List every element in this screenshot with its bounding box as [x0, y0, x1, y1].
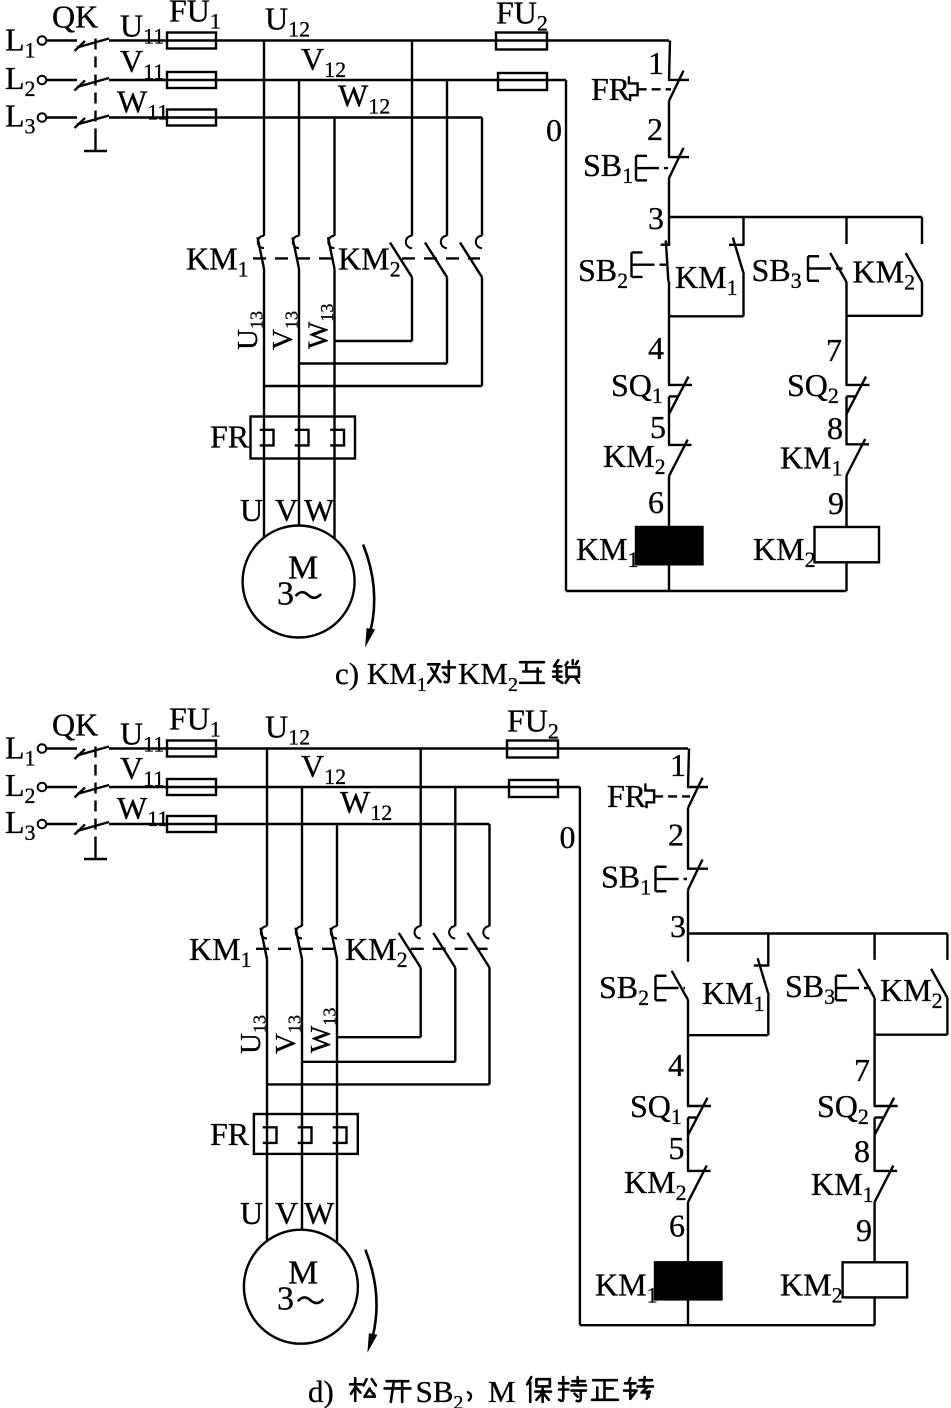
thermal relay FR actuator (c)	[629, 76, 638, 101]
limit switch SQ2 NC contact (d)	[874, 1105, 898, 1107]
wire node3 to SB2 (c)	[668, 217, 670, 245]
wire KM2 coil to bottom (d)	[873, 1297, 875, 1325]
fuse FU2 element 2 (c)	[498, 73, 547, 90]
wire SB2 to node4 (c)	[668, 281, 670, 385]
contactor KM2 main contact pole 2 (d)	[449, 926, 455, 938]
wire L1 to QK (c)	[46, 39, 77, 41]
wire V-phase KM1 to motor (d)	[301, 959, 303, 1230]
svg-text:FR: FR	[591, 71, 631, 107]
wire KM1 coil to bottom (c)	[668, 564, 670, 591]
wire KM2 pole1 to W13 (c)	[411, 277, 413, 341]
limit switch SQ2 NC contact (c)	[846, 384, 870, 386]
motor M circle (c)	[243, 526, 355, 638]
wire V-phase drop to KM2 (c)	[446, 80, 448, 236]
switch QK pole 1 (c)	[77, 39, 109, 48]
wire bottom return (c)	[566, 590, 847, 592]
wire node3 to SB3 (c)	[845, 217, 847, 244]
wire KM2 pole3 to U13 (c)	[481, 277, 483, 386]
wire W-phase KM1 to motor (d)	[336, 959, 338, 1242]
wire L2 to QK (d)	[46, 786, 77, 788]
contact KM2 NC interlock (d)	[687, 1170, 711, 1172]
start button SB3 operator (c)	[807, 256, 809, 281]
start button SB2 contact open (d)	[672, 971, 688, 1000]
wire V-phase drop to KM1 (c)	[298, 80, 300, 236]
wire U-phase drop to KM2 (d)	[420, 749, 422, 927]
svg-text:3: 3	[277, 576, 294, 613]
rotation arrow (c)	[363, 545, 374, 631]
contact KM1 auxiliary closed (d)	[754, 964, 770, 966]
wire node3 to SB3 (d)	[873, 934, 875, 960]
wire node3 to KM2 aux (c)	[921, 217, 923, 244]
contactor KM1 linkage (d)	[256, 948, 337, 950]
contact KM1 NC interlock (d)	[874, 1170, 898, 1172]
thermal relay FR heater 3 (d)	[333, 1127, 347, 1143]
switch QK pole 2 (d)	[77, 785, 109, 794]
wire control rail top (c)	[669, 41, 670, 80]
terminal L1 (d)	[38, 744, 47, 753]
svg-text:1: 1	[648, 45, 664, 81]
wire parallel bottom left pair (d)	[688, 1034, 768, 1036]
fuse FU1 element 1 (c)	[167, 33, 216, 49]
wire SB3 to node7 (d)	[873, 998, 875, 1106]
svg-text:4: 4	[668, 1047, 684, 1083]
svg-text:QK: QK	[52, 707, 98, 743]
thermal relay FR heater 3 (c)	[330, 430, 344, 446]
wire line1 (d)	[109, 747, 688, 749]
fuse FU1 element 2 (d)	[167, 779, 216, 795]
switch QK pole 3 (c)	[77, 116, 109, 125]
start button SB2 contact closed (c)	[661, 243, 671, 245]
wire line2 (c)	[109, 79, 566, 81]
contactor KM1 main contact pole 2 (d)	[296, 926, 302, 938]
wire L3 to QK (d)	[46, 823, 77, 825]
wire line2 (d)	[109, 786, 580, 788]
thermal relay FR heater 2 (c)	[295, 430, 309, 446]
thermal relay FR actuator (d)	[645, 783, 654, 808]
wire parallel bottom left pair (c)	[669, 315, 744, 317]
terminal L1 (c)	[38, 36, 47, 45]
contact KM2 auxiliary open (c)	[906, 253, 922, 282]
terminal L3 (c)	[38, 113, 47, 122]
terminal L2 (c)	[38, 76, 47, 85]
wire W-phase drop to KM2 (c)	[481, 118, 483, 236]
wire SQ2 to KM1 NC (c)	[845, 396, 847, 444]
wire U-phase drop to KM1 (d)	[266, 749, 268, 927]
contactor KM2 main contact pole 2 (c)	[441, 236, 447, 248]
start button SB2 operator (c)	[630, 252, 632, 277]
contact KM2 NC interlock (c)	[668, 444, 692, 446]
wire KM2 pole3 to U13 (d)	[488, 968, 490, 1085]
contact KM1 NC interlock (c)	[846, 443, 870, 445]
stop button SB1 NC contact (c)	[668, 156, 689, 158]
limit switch SQ1 NC contact (c)	[668, 384, 692, 386]
wire L1 to QK (d)	[46, 747, 77, 749]
wire L2 to QK (c)	[46, 79, 77, 81]
svg-text:3: 3	[670, 908, 686, 944]
wire rail SB1 to node3 (d)	[687, 890, 689, 934]
fuse FU2 element 1 (c)	[496, 33, 547, 50]
start button SB3 contact open (d)	[858, 969, 874, 998]
svg-text:V: V	[275, 1195, 298, 1231]
svg-text:5: 5	[669, 1130, 685, 1166]
wire L3 to QK (c)	[46, 116, 77, 118]
fuse FU2 element 2 (d)	[509, 780, 558, 797]
wire rail FR to SB1 (d)	[687, 808, 689, 869]
wire line3 (c)	[109, 116, 482, 118]
contact KM1 auxiliary closed (c)	[729, 244, 745, 246]
wire W-phase drop to KM1 (d)	[336, 824, 338, 926]
fuse FU2 element 1 (d)	[507, 741, 558, 758]
contactor KM2 main contact pole 1 (c)	[406, 236, 412, 248]
wire KM2 NC to coil (d)	[687, 1202, 689, 1262]
wire rail SB1 to node3 (c)	[668, 178, 670, 217]
terminal L3 (d)	[38, 820, 47, 829]
wire parallel bottom right pair (d)	[875, 1033, 948, 1035]
svg-text:9: 9	[856, 1212, 872, 1248]
svg-text:d): d)	[308, 1374, 334, 1408]
node 3 bus (d)	[688, 932, 947, 934]
svg-text:8: 8	[854, 1133, 870, 1169]
svg-text:U: U	[240, 492, 263, 528]
wire SQ1 to KM2 NC (d)	[687, 1118, 689, 1171]
svg-text:7: 7	[854, 1052, 870, 1088]
svg-text:V: V	[275, 492, 298, 528]
wire line1 (c)	[109, 39, 669, 41]
svg-text:7: 7	[826, 332, 842, 368]
motor M circle (d)	[244, 1230, 358, 1344]
wire W-phase drop to KM1 (c)	[333, 118, 335, 236]
stop button SB1 NC contact (d)	[687, 868, 708, 870]
wire KM2 coil to bottom (c)	[845, 562, 847, 591]
wire rail FR to SB1 (c)	[668, 101, 670, 157]
switch QK pole 1 (d)	[77, 747, 109, 756]
start button SB3 contact open (c)	[830, 253, 846, 282]
wire W-phase drop to KM2 (d)	[488, 824, 490, 926]
svg-text:M: M	[488, 1374, 516, 1408]
svg-text:9: 9	[828, 485, 844, 521]
fuse FU1 element 3 (c)	[167, 110, 216, 126]
svg-text:2: 2	[647, 111, 663, 147]
svg-text:6: 6	[648, 484, 664, 520]
wire bottom return (d)	[580, 1324, 875, 1326]
wire KM1 NC to coil (c)	[845, 476, 847, 528]
switch QK linkage (d)	[94, 747, 96, 847]
svg-text:4: 4	[648, 330, 664, 366]
coil KM1 (energized) (c)	[636, 527, 703, 564]
contactor KM1 main contact pole 3 (c)	[328, 236, 334, 248]
contact FR NC (c)	[668, 79, 689, 81]
wire SB3 to node7 (c)	[845, 282, 847, 385]
wire 0 rail (c)	[565, 80, 567, 591]
svg-text:FR: FR	[607, 778, 647, 814]
wire 0 rail (d)	[579, 787, 581, 1325]
svg-text:W: W	[304, 1195, 335, 1231]
svg-text:0: 0	[560, 819, 576, 855]
terminal L2 (d)	[38, 783, 47, 792]
wire KM2 pole1 to W13 (d)	[420, 968, 422, 1038]
wire W-phase KM1 to motor (c)	[333, 269, 335, 539]
stop button SB1 operator (d)	[654, 867, 656, 892]
wire V-phase KM1 to motor (c)	[298, 269, 300, 526]
fuse FU1 element 1 (d)	[167, 741, 216, 757]
thermal relay FR heater 2 (d)	[298, 1127, 312, 1143]
fuse FU1 element 3 (d)	[167, 816, 216, 832]
svg-text:QK: QK	[52, 0, 98, 35]
switch QK linkage (c)	[94, 39, 96, 139]
wire node3 to KM2 aux (d)	[946, 934, 948, 960]
stop button SB1 operator (c)	[635, 156, 637, 181]
switch QK pole 3 (d)	[77, 822, 109, 831]
svg-text:c) KM1: c) KM1	[335, 656, 427, 696]
switch QK pole 2 (c)	[77, 78, 109, 87]
wire KM1 coil to bottom (d)	[687, 1299, 689, 1325]
wire U-phase drop to KM1 (c)	[263, 41, 265, 236]
fuse FU1 element 2 (c)	[167, 72, 216, 88]
thermal relay FR heater 1 (d)	[263, 1127, 277, 1143]
wire SQ2 to KM1 NC (d)	[873, 1118, 875, 1171]
wire KM2 aux to parallel bottom (d)	[946, 998, 948, 1035]
thermal relay FR heater 1 (c)	[260, 430, 274, 446]
start button SB3 operator (d)	[835, 976, 837, 1001]
wire U-phase KM1 to motor (d)	[266, 959, 268, 1241]
coil KM2 (c)	[815, 527, 880, 562]
wire line3 (d)	[109, 823, 490, 825]
thermal relay FR box (d)	[254, 1114, 358, 1154]
wire KM2 pole2 to V13 (d)	[454, 968, 456, 1062]
contactor KM1 linkage (c)	[253, 257, 335, 259]
wire KM2 pole2 to V13 (c)	[446, 277, 448, 363]
wire SQ1 to KM2 NC (c)	[668, 396, 670, 445]
wire V-phase drop to KM1 (d)	[301, 787, 303, 926]
node 3 bus (c)	[669, 216, 922, 218]
wire KM1 NC to coil (d)	[873, 1202, 875, 1262]
svg-text:3: 3	[648, 200, 664, 236]
wire node3 to SB2 (d)	[687, 934, 689, 962]
contactor KM1 main contact pole 3 (d)	[331, 926, 337, 938]
thermal relay FR box (c)	[251, 417, 356, 459]
svg-text:1: 1	[670, 747, 686, 783]
svg-text:W: W	[304, 492, 335, 528]
wire U-phase KM1 to motor (c)	[263, 269, 265, 538]
svg-text:2: 2	[668, 817, 684, 853]
wire parallel bottom right pair (c)	[847, 315, 923, 317]
contactor KM1 main contact pole 1 (c)	[258, 236, 264, 248]
contactor KM1 main contact pole 2 (c)	[293, 236, 299, 248]
limit switch SQ1 NC contact (d)	[687, 1105, 711, 1107]
wire SB2 to node4 (d)	[687, 1000, 689, 1106]
wire V-phase drop to KM2 (d)	[454, 787, 456, 926]
wire node3 to KM1 aux (d)	[767, 934, 769, 966]
contactor KM2 main contact pole 3 (d)	[483, 926, 489, 938]
svg-text:FR: FR	[210, 419, 250, 455]
contact KM2 auxiliary open (d)	[931, 969, 947, 998]
rotation arrow (d)	[365, 1250, 376, 1336]
start button SB2 operator (d)	[654, 976, 656, 1001]
coil KM1 (energized) (d)	[655, 1262, 722, 1299]
contactor KM1 main contact pole 1 (d)	[261, 926, 267, 938]
svg-text:6: 6	[669, 1208, 685, 1244]
contactor KM2 main contact pole 3 (c)	[476, 236, 482, 248]
wire node3 to KM1 aux (c)	[742, 217, 744, 245]
contactor KM2 main contact pole 1 (d)	[415, 926, 421, 938]
svg-text:U: U	[240, 1195, 263, 1231]
contact FR NC (d)	[687, 786, 708, 788]
wire KM1 aux to parallel bottom (d)	[767, 995, 769, 1035]
wire control rail top (d)	[688, 749, 689, 788]
wire KM1 aux to parallel bottom (c)	[742, 275, 744, 317]
contactor KM2 linkage (d)	[411, 948, 488, 950]
svg-text:FR: FR	[210, 1116, 250, 1152]
wire KM2 NC to coil (c)	[668, 476, 670, 527]
contactor KM2 linkage (c)	[402, 257, 480, 259]
coil KM2 (d)	[843, 1262, 908, 1297]
wire U-phase drop to KM2 (c)	[411, 41, 413, 236]
svg-text:3: 3	[277, 1281, 294, 1318]
wire KM2 aux to parallel bottom (c)	[921, 282, 923, 316]
svg-text:0: 0	[546, 112, 562, 148]
